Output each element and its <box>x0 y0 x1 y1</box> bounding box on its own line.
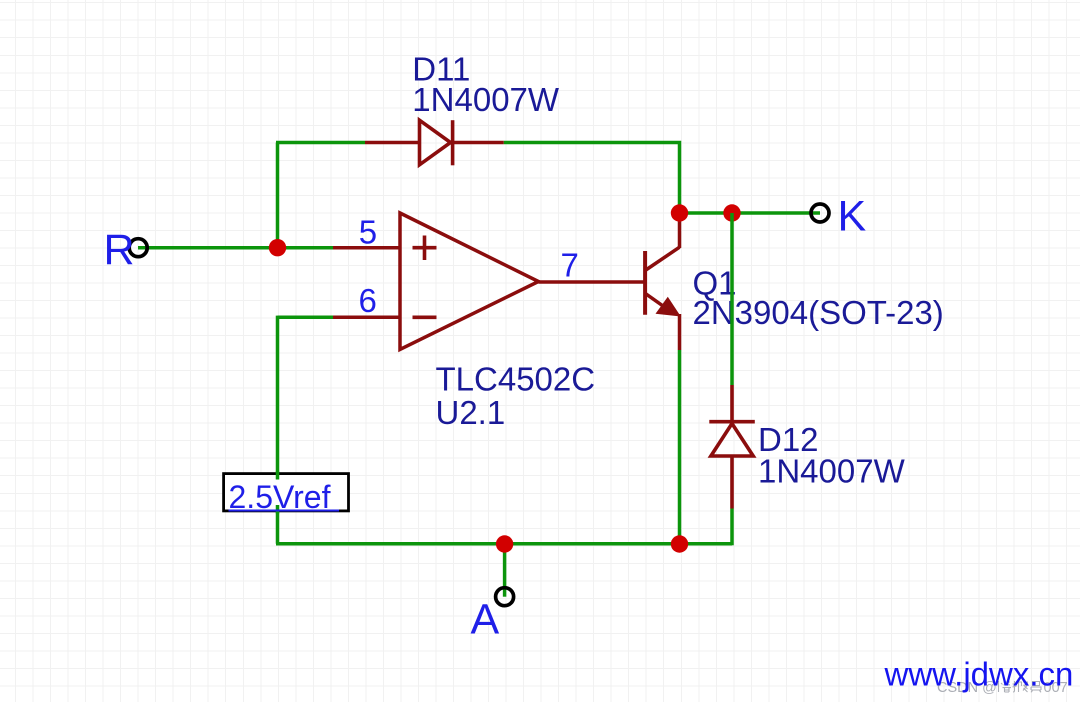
D11 cathode bar <box>451 120 455 165</box>
wire D12 cathode up to K node (drawn over labels) <box>730 213 734 385</box>
wire left vertical through 2.5Vref <box>276 316 280 544</box>
op-amp plus sign <box>413 236 437 261</box>
svg-text:2N3904(SOT-23): 2N3904(SOT-23) <box>693 294 944 331</box>
2.5Vref underline <box>229 510 340 512</box>
wire D11 to right corner <box>504 143 680 214</box>
node dot collector/K <box>671 204 688 221</box>
D12 triangle <box>711 424 753 457</box>
CJK glyph 员 (approx) <box>1031 682 1041 693</box>
svg-text:TLC4502C: TLC4502C <box>436 361 596 398</box>
Q1 collector diagonal <box>645 247 679 270</box>
green wire over box borders <box>276 472 280 514</box>
svg-text:K: K <box>838 193 867 241</box>
wire emitter down <box>678 350 682 544</box>
D12 cathode bar <box>709 420 755 424</box>
Q1 collector vertical <box>678 212 682 248</box>
op-amp U2.1 triangle <box>400 213 539 350</box>
svg-text:7: 7 <box>561 247 579 284</box>
Q1 emitter diagonal <box>645 293 668 309</box>
node dot R branch <box>269 239 286 256</box>
terminal K <box>811 204 829 222</box>
Q1 emitter arrowhead <box>656 297 681 317</box>
wire A drop <box>503 544 507 597</box>
pin 7 output wire to Q1 base <box>539 280 646 284</box>
pin 6 stub <box>333 316 400 320</box>
D11 anode pin <box>365 141 418 145</box>
D11 cathode pin <box>453 141 504 145</box>
wire top left to D11 <box>276 141 365 145</box>
terminal R <box>129 239 147 257</box>
terminal A <box>496 588 514 606</box>
node dot A <box>496 535 513 552</box>
svg-text:1N4007W: 1N4007W <box>758 453 906 490</box>
op-amp minus sign <box>413 315 437 319</box>
pin 5 stub <box>333 246 400 250</box>
svg-text:R: R <box>104 226 135 274</box>
wire R input horizontal <box>138 246 333 250</box>
CJK glyph 报 (approx) <box>1013 681 1028 692</box>
D11 triangle <box>420 120 451 165</box>
svg-text:U2.1: U2.1 <box>436 394 506 431</box>
svg-text:www.jdwx.cn: www.jdwx.cn <box>884 656 1074 693</box>
svg-text:A: A <box>471 596 500 644</box>
Q1 emitter vertical <box>678 314 682 350</box>
wire pin6 green part <box>278 316 334 320</box>
wire D12 anode to bottom corner <box>730 509 734 546</box>
wire K horizontal <box>680 211 821 215</box>
CJK glyph 情 (approx) <box>995 681 1011 692</box>
D12 anode pin <box>730 456 734 509</box>
svg-text:1N4007W: 1N4007W <box>412 81 560 118</box>
D12 cathode pin <box>730 385 734 422</box>
svg-text:5: 5 <box>359 214 377 251</box>
wire vertical from node to top <box>276 143 280 250</box>
node dot D12/K <box>723 204 740 221</box>
node dot emitter/bottom <box>671 535 688 552</box>
Q1 base bar <box>643 251 647 315</box>
wire bottom horizontal <box>276 542 732 546</box>
watermark CSDN <box>937 680 1068 696</box>
svg-text:6: 6 <box>359 282 377 319</box>
